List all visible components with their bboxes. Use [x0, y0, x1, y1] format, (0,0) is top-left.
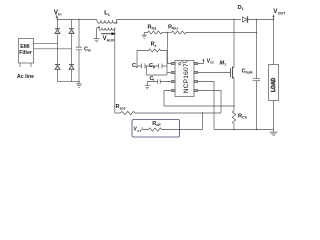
pin 4: [171, 89, 175, 91]
wire pin2: [167, 72, 171, 74]
pin 8: [194, 62, 198, 64]
wire option box to ZCD: [180, 113, 203, 130]
resistor RfbL: [144, 31, 163, 34]
resistor Roff: [149, 128, 180, 131]
capacitor Ct: [147, 79, 171, 83]
wire pin4 CS: [164, 91, 234, 107]
capacitor Cbulk: [253, 20, 261, 130]
inductor L1 aux winding: [99, 28, 115, 31]
capacitor Cz: [137, 64, 159, 69]
pin 2: [171, 71, 175, 73]
svg-text:Filter: Filter: [19, 50, 32, 56]
svg-text:z: z: [155, 44, 157, 48]
svg-text:p: p: [153, 65, 155, 69]
svg-text:1: 1: [224, 63, 226, 67]
svg-text:bulk: bulk: [246, 71, 253, 75]
wire aux right down: [114, 28, 116, 113]
wire Vct tick: [142, 127, 149, 129]
bridge diode column 1: [57, 20, 59, 82]
pin 3: [171, 80, 175, 82]
diode bridge D-c: [69, 29, 74, 33]
wire aux left to ground: [97, 28, 99, 39]
ground RfbL: [142, 33, 147, 39]
node Vout terminal arrow: [273, 17, 275, 20]
node aux dot: [98, 26, 100, 28]
pin 5: [194, 89, 198, 91]
ground aux: [94, 39, 100, 42]
ground output: [270, 130, 278, 136]
svg-text:fbL: fbL: [152, 27, 157, 31]
wire load top: [273, 20, 275, 65]
pin 7: [194, 71, 198, 73]
svg-text:CS: CS: [242, 116, 247, 120]
diode bridge D-d: [69, 65, 74, 69]
ground Ct: [145, 82, 150, 89]
diode bridge D-a: [55, 29, 60, 33]
wire bottom rail: [214, 129, 274, 131]
wire bridge bottom: [58, 81, 80, 83]
node Vin terminal arrow: [56, 15, 57, 18]
svg-text:z: z: [136, 65, 138, 69]
wire EMI bottom stubs: [20, 63, 31, 67]
wire pin8 Vcc: [198, 60, 204, 63]
wire FB drop to pin1: [168, 33, 172, 64]
wire load bottom: [273, 101, 275, 130]
wire pin6 GND down: [198, 82, 214, 130]
wire comp ground branch: [147, 66, 168, 75]
wire AC line 2: [34, 48, 72, 50]
svg-text:off: off: [156, 123, 161, 127]
node L1 dot: [116, 22, 118, 24]
capacitor Cp: [159, 64, 168, 69]
wire pin5 ZCD: [198, 91, 221, 114]
wire Rz legs: [137, 51, 167, 76]
diode bridge D-b: [55, 65, 60, 69]
svg-text:Ac line: Ac line: [17, 74, 34, 80]
ground bridge: [76, 82, 82, 88]
svg-text:cc: cc: [210, 61, 214, 65]
inductor L1 main winding: [97, 20, 118, 24]
svg-text:OUT: OUT: [278, 12, 286, 16]
svg-text:1: 1: [242, 7, 244, 11]
capacitor Cin: [76, 20, 82, 82]
bridge diode column 2: [71, 20, 73, 82]
IC U1 NCP1607 body: [175, 61, 194, 97]
junction dots: [57, 19, 58, 20]
svg-text:EMI: EMI: [20, 44, 30, 50]
svg-text:NCP1607: NCP1607: [183, 63, 190, 93]
svg-text:AUX: AUX: [107, 38, 115, 42]
EMI filter box: [19, 39, 34, 64]
svg-text:fbU: fbU: [172, 27, 178, 31]
transistor M1: [230, 68, 232, 77]
resistor Rzcd: [115, 111, 221, 114]
wire AC line 1: [34, 42, 58, 44]
pin 6: [194, 80, 198, 82]
wire pin7 DRV to gate: [198, 72, 231, 74]
svg-text:in: in: [88, 49, 91, 53]
wire RfbU to Vout divider: [188, 32, 257, 34]
svg-text:in: in: [58, 12, 62, 16]
wire top rail: [58, 19, 274, 21]
resistor RfbU: [172, 31, 188, 34]
svg-text:LOAD: LOAD: [271, 77, 277, 92]
pin 1: [171, 62, 175, 64]
option box follower boost: [132, 120, 180, 138]
resistor Rcs: [232, 106, 235, 130]
load box: [269, 65, 279, 101]
svg-text:1: 1: [108, 13, 110, 17]
svg-text:zcd: zcd: [120, 106, 126, 110]
svg-text:CT: CT: [137, 129, 141, 133]
resistor Rz: [137, 49, 167, 52]
arrow Vaux: [101, 33, 112, 35]
diode D1: [243, 17, 247, 22]
wire FB junction: [164, 32, 172, 34]
